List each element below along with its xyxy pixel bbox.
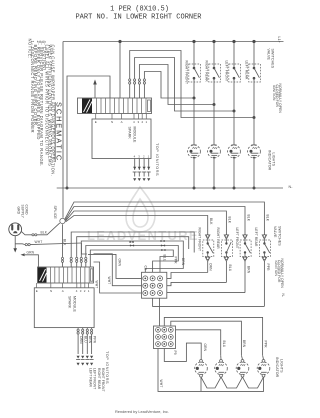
svg-text:A: A [62, 289, 64, 293]
top indicator light 1 [188, 98, 201, 190]
splice fan wire to RIGHT REAR switch [66, 211, 227, 235]
top indicator light 4 [248, 118, 261, 190]
svg-text:BLK: BLK [246, 215, 250, 222]
feed stubs into light tops [221, 355, 264, 359]
bottom spark module U2 box [34, 288, 94, 328]
svg-text:CORD: CORD [25, 205, 29, 216]
splice node [60, 218, 65, 223]
svg-text:INDICATOR: INDICATOR [275, 357, 279, 378]
supply cord plug [9, 223, 22, 236]
WHT wire from strip into C9 row3 [94, 262, 142, 293]
PPR wire P9 to light 4 [164, 317, 262, 355]
switch return RIGHT REAR to C9 [167, 282, 227, 285]
svg-text:RIGHT REAR: RIGHT REAR [205, 61, 209, 83]
svg-text:BRN: BRN [181, 258, 185, 266]
link C9 to P9 [159, 298, 161, 326]
svg-text:RIGHT FRONT: RIGHT FRONT [198, 228, 202, 252]
top connector strip [78, 98, 152, 114]
light 1 drop to WHT bus [200, 377, 202, 391]
bottom indicator light 4 [257, 360, 270, 378]
svg-text:BLU: BLU [228, 265, 232, 272]
N bus (top section) [57, 187, 283, 189]
top valve switch RIGHT FRONT [185, 40, 201, 100]
inline connectors on strip wires [61, 257, 87, 262]
plug neutral/ground stem [14, 236, 16, 249]
svg-text:ORN: ORN [209, 263, 213, 271]
svg-text:ORN: ORN [203, 344, 207, 352]
svg-text:BRN: BRN [242, 340, 246, 348]
bottom module loop 5 [90, 250, 173, 272]
module pin wire loop 4 (to LEFT REAR) [144, 72, 194, 99]
svg-text:MODULE: MODULE [133, 127, 137, 143]
strip pin dividers [97, 98, 151, 114]
svg-text:WHT: WHT [159, 380, 163, 388]
svg-text:GRN: GRN [27, 251, 35, 255]
svg-text:SPLICE: SPLICE [53, 206, 57, 220]
module pin wire loop 3 (to LEFT FRONT) [139, 65, 214, 105]
svg-text:LEFT FRONT: LEFT FRONT [93, 368, 97, 389]
svg-text:BLU: BLU [222, 341, 226, 348]
daisy link light1-light2 [201, 377, 221, 388]
svg-text:SUPPLY: SUPPLY [21, 205, 25, 219]
svg-text:WHT: WHT [94, 281, 98, 289]
strip pin dividers [51, 267, 93, 283]
svg-text:BLK: BLK [266, 215, 270, 222]
svg-text:IGNITION: IGNITION [274, 261, 278, 277]
splice BLK drop to bottom module strip [62, 224, 64, 267]
top valve switch LEFT REAR [245, 40, 261, 119]
svg-text:MODULE: MODULE [73, 296, 77, 312]
svg-text:LEFT FRONT: LEFT FRONT [235, 228, 239, 249]
svg-text:LIGHTS: LIGHTS [272, 153, 276, 167]
watermark flame logo [126, 187, 155, 232]
svg-text:SPARK: SPARK [68, 296, 72, 309]
top valve switch LEFT FRONT [225, 40, 241, 113]
svg-text:LIGHTS: LIGHTS [280, 359, 284, 373]
svg-text:PPR: PPR [264, 341, 268, 349]
svg-text:PPR: PPR [93, 336, 97, 344]
L1 feed wire from splice (left vertical) [62, 42, 64, 218]
svg-text:TOP IGNITORS: TOP IGNITORS [155, 143, 159, 176]
svg-text:PPR: PPR [266, 264, 270, 272]
bottom valve switch LEFT FRONT [235, 228, 251, 293]
ignitor output wires (top module) [133, 159, 137, 182]
svg-text:BLU: BLU [163, 255, 167, 262]
L1 bus drop to module [119, 42, 121, 99]
splice fan wire to LEFT FRONT switch [65, 207, 245, 235]
switch return LEFT REAR to C9 via lower loop [153, 298, 265, 306]
svg-text:C9: C9 [144, 266, 148, 270]
spark module U1 neutral wire to N bus [67, 76, 110, 188]
bottom module loop 2 [77, 237, 189, 267]
bottom ignitor output wires with connectors [76, 328, 83, 366]
BLK wire plug to splice [21, 232, 32, 235]
svg-text:Rendered by LeadVenture, Inc.: Rendered by LeadVenture, Inc. [115, 409, 169, 414]
svg-text:PPR: PPR [174, 257, 178, 265]
pin stubs strip to module (bottom) [37, 283, 89, 288]
svg-text:1 PER (8X10.5): 1 PER (8X10.5) [110, 6, 169, 14]
svg-text:N-: N- [289, 185, 294, 189]
daisy link light3-light4 [243, 377, 264, 388]
BRN wire P9 to light 3 [171, 321, 242, 355]
svg-text:IGNITION: IGNITION [272, 85, 276, 101]
ground arrow [13, 248, 17, 252]
svg-text:N: N [111, 120, 113, 124]
svg-text:RIGHT FRONT: RIGHT FRONT [185, 61, 189, 85]
switch return LEFT FRONT to C9 [167, 292, 245, 294]
bottom module loop 3 [81, 241, 183, 272]
strip black block [38, 267, 47, 282]
connector P9 (9-pin block) [154, 326, 177, 355]
svg-text:RIGHT FRONT: RIGHT FRONT [101, 368, 105, 392]
svg-text:LEFT REAR: LEFT REAR [254, 228, 258, 247]
svg-text:P9: P9 [173, 351, 177, 355]
ORN wire P9 to light 1 [164, 343, 201, 361]
daisy link light2-light3 [221, 377, 243, 388]
svg-text:GRD: GRD [17, 207, 21, 215]
svg-text:E: E [95, 120, 97, 124]
svg-text:BLK: BLK [228, 217, 232, 224]
svg-text:RIGHT REAR: RIGHT REAR [216, 228, 220, 250]
bottom valve switch RIGHT REAR [216, 228, 232, 283]
svg-text:A: A [121, 120, 123, 124]
svg-text:E: E [36, 289, 38, 293]
spark module U1 box [92, 119, 151, 159]
svg-text:SCHEMATIC: SCHEMATIC [55, 102, 64, 162]
junction dot module N / N bus [66, 187, 69, 190]
svg-text:BLK: BLK [63, 239, 67, 246]
bottom valve switch RIGHT FRONT [198, 228, 214, 273]
top indicator light 2 [208, 105, 221, 190]
module pin wire loop 2 (to RIGHT REAR) [135, 58, 234, 112]
bottom indicator light 3 [236, 360, 249, 378]
switch return RIGHT FRONT to C9 [167, 273, 208, 279]
inline connectors on module loop rises [129, 79, 146, 84]
ORN wire into connector C9 [88, 254, 142, 278]
svg-text:SWITCHES: SWITCHES [271, 49, 275, 69]
svg-text:INDICATOR: INDICATOR [267, 150, 271, 171]
svg-text:N-: N- [281, 294, 285, 298]
top valve switch RIGHT REAR [205, 40, 221, 106]
svg-text:VALVE: VALVE [273, 226, 277, 238]
svg-text:RIGHT REAR: RIGHT REAR [97, 368, 101, 390]
svg-text:LEFT FRONT: LEFT FRONT [225, 61, 229, 82]
GRN wire with arrow [21, 253, 25, 256]
svg-text:SPARK: SPARK [128, 127, 132, 140]
bottom connector strip [38, 267, 94, 283]
splice fan wire to RIGHT FRONT switch [66, 216, 208, 235]
svg-text:WHT: WHT [35, 240, 43, 244]
svg-text:L1+: L1+ [277, 37, 281, 43]
svg-text:BRN: BRN [247, 266, 251, 274]
L1 top bus [63, 41, 284, 43]
top indicator light 3 [228, 111, 241, 190]
svg-text:PART NO. IN LOWER RIGHT CORNER: PART NO. IN LOWER RIGHT CORNER [75, 14, 202, 22]
WHT wire from plug into C9 row2 [81, 243, 87, 254]
bottom indicator light 1 [195, 360, 208, 378]
module pin wire loop 1 (to RIGHT FRONT) [130, 51, 254, 118]
svg-text:N: N [50, 289, 52, 293]
notice text block (rotated) [27, 39, 55, 177]
svg-text:WHT: WHT [107, 277, 111, 285]
bottom module loop 1 [71, 232, 194, 267]
svg-text:LEFT REAR: LEFT REAR [88, 368, 92, 387]
WHT return from P9 [158, 349, 264, 392]
module pin labels [95, 120, 148, 124]
svg-text:VALVE: VALVE [266, 49, 270, 61]
splice fan wire to LEFT REAR switch [65, 202, 265, 235]
svg-text:BLK: BLK [209, 218, 213, 225]
WHT wire from plug [15, 243, 25, 246]
bottom valve switch LEFT REAR [254, 228, 270, 307]
svg-text:ORN: ORN [117, 259, 121, 267]
BLU wire P9 to light 2 [176, 330, 221, 356]
svg-text:BLK: BLK [41, 231, 48, 235]
bottom indicator light 2 [215, 360, 228, 378]
module bottom pin numbers [134, 155, 150, 159]
bottom module pin labels [36, 289, 90, 293]
svg-text:TOP IGNITORS: TOP IGNITORS [105, 351, 109, 384]
inline connector bowties on loops [130, 240, 166, 251]
pin stubs strip to module [96, 114, 147, 120]
bottom module loop 4 [86, 246, 179, 273]
strip black block [82, 98, 92, 113]
svg-text:LEFT REAR: LEFT REAR [245, 61, 249, 80]
svg-text:SWITCHES: SWITCHES [278, 226, 282, 246]
ground arrow pin A [94, 84, 96, 98]
connector C9 (9-pin block) [142, 266, 167, 299]
